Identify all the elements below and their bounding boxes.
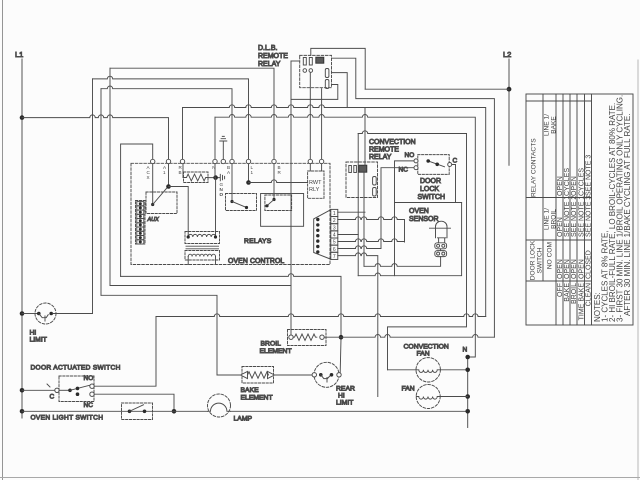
wire hi-limit vertical x=92.5: [92, 79, 94, 314]
wire hi-limit riser to L1 terminal: y=78.9 run: [93, 76, 249, 159]
relay K1 D.L.B. remote relay box: [300, 55, 332, 87]
svg-text:ELEMENT: ELEMENT: [241, 395, 273, 402]
svg-text:5: 5: [333, 240, 336, 246]
svg-text:6: 6: [333, 247, 336, 253]
wire fan to N rail: [440, 396, 467, 398]
terminal T1: [151, 159, 155, 163]
transformer TR primary coil: [188, 234, 216, 237]
relay K4 pivot dot: [272, 198, 275, 201]
svg-text:L1: L1: [15, 50, 23, 59]
svg-text:LIMIT: LIMIT: [336, 400, 353, 407]
svg-text:AUX: AUX: [147, 217, 160, 223]
wire conv fan run: [388, 369, 417, 371]
svg-text:RLY: RLY: [309, 187, 320, 193]
resistor RB zigzag: [183, 164, 208, 181]
hi limit circle: [35, 303, 56, 324]
wire L1 rail to hi limit: [22, 313, 37, 315]
label under T3: [179, 165, 183, 175]
wire K1 coil-top to right bus x=494.4: [332, 58, 495, 337]
relay K3 pivot dot: [230, 200, 233, 203]
wire conv fan to N rail: [440, 369, 467, 371]
door actuated pivot wire: [59, 389, 69, 391]
wire bake feed corner to element: [217, 374, 241, 376]
svg-text:CONVECTION: CONVECTION: [404, 344, 449, 351]
svg-text:HI: HI: [30, 330, 37, 337]
wire conv fan feed from y=133.5 bus: [388, 134, 467, 370]
svg-text:CONVECTION: CONVECTION: [369, 139, 416, 146]
svg-text:DOOR: DOOR: [420, 178, 441, 185]
connector J2 pin dots: [316, 218, 319, 254]
svg-text:C: C: [453, 158, 458, 165]
rear hi limit circle: [314, 362, 339, 387]
relay K2 contact a: [373, 177, 377, 186]
svg-text:LAMP: LAMP: [234, 416, 253, 423]
wire broil feed vertical x=110: [109, 68, 111, 285]
svg-text:O: O: [220, 192, 224, 197]
junction T7: [246, 180, 251, 185]
svg-text:NC: NC: [399, 167, 409, 174]
door lock blade: [428, 161, 444, 167]
svg-text:NO: NO: [405, 152, 415, 159]
wire K1 top feed to L2: [311, 48, 365, 89]
door actuated NO circle: [90, 384, 94, 388]
N rail junction top: [465, 355, 470, 360]
wire K1 pin drop to RWT terminal 9: [309, 73, 311, 160]
relay K1 coil pin 1: [303, 58, 306, 66]
wire RTD link: [440, 249, 442, 251]
svg-text:OPEN: OPEN: [571, 259, 578, 279]
bake element zigzag: [248, 372, 269, 378]
svg-text:X: X: [147, 175, 150, 180]
broil element terminals: [289, 335, 293, 339]
label under T7: [251, 165, 254, 175]
door lock switch solid box left/bottom: [395, 202, 462, 204]
N rail junction conv fan: [465, 368, 470, 373]
door actuated blade: [70, 385, 90, 390]
wire L1 left rail: [21, 59, 23, 418]
svg-text:A: A: [227, 170, 231, 175]
label under T1: [147, 165, 151, 180]
junction on L1 rail at door actuated switch: [20, 388, 25, 393]
relay K2 convection remote relay box: [346, 162, 378, 198]
wire x=365 drop from mid rail through K2 coil to sensor run: [364, 108, 365, 267]
svg-text:SWITCH: SWITCH: [418, 194, 446, 201]
connector J1 10-pin outer: [136, 201, 146, 245]
terminal T5 GND: [221, 159, 225, 163]
wire K1 left pin: [291, 60, 300, 62]
label NO beside K3: [220, 187, 224, 197]
relay K4 contact dot: [265, 204, 268, 207]
door lock C contact circle: [448, 163, 452, 167]
svg-text:LOCK: LOCK: [420, 186, 439, 193]
scan edge artifact right: [637, 60, 639, 480]
connector J1 cells: [137, 202, 144, 244]
transformer TR secondary coil box: [185, 251, 220, 261]
wire hi limit to riser: [53, 313, 93, 315]
convection fan circle: [416, 358, 440, 382]
svg-text:CYCLES: CYCLES: [578, 168, 585, 196]
svg-text:BAKE: BAKE: [550, 116, 557, 134]
svg-text:OVEN LIGHT SWITCH: OVEN LIGHT SWITCH: [31, 415, 104, 422]
door actuated lower dot: [76, 392, 80, 396]
wire RTD run y=266.3 with hops: [364, 257, 441, 267]
table outer border: [526, 94, 633, 325]
svg-text:NO: NO: [84, 375, 94, 382]
relay K3 box: [226, 194, 257, 211]
svg-text:1: 1: [333, 211, 336, 217]
transformer TR core: [186, 246, 219, 249]
wire J2 cell1 to x=365: [338, 211, 365, 213]
terminal T4: [213, 159, 217, 163]
hi limit contact dots: [37, 312, 41, 316]
relay K2 coil body: [359, 165, 367, 172]
wire secondary drops: [188, 257, 215, 265]
wire broil right to junction and on to x=494.4 with hops: [324, 335, 494, 338]
relay K3 blade: [232, 202, 247, 208]
svg-text:B: B: [179, 170, 182, 175]
svg-text:OPEN: OPEN: [557, 176, 564, 196]
svg-text:RWT: RWT: [309, 180, 322, 186]
wire L2 horizontal to D.L.B. relay: [365, 88, 509, 90]
relay K1 pin circle 2: [309, 69, 313, 73]
door actuated dashed box: [59, 376, 94, 402]
wire K1 pin drop to RWT terminal 10: [321, 89, 323, 160]
label under T8: [278, 165, 282, 175]
svg-text:1: 1: [251, 170, 254, 175]
svg-text:OPEN: OPEN: [557, 259, 564, 279]
wire mid rail y=117.2 terminal 4 to right bus x=475.3 with hops: [215, 115, 475, 358]
svg-text:FAN: FAN: [417, 351, 430, 358]
svg-text:LIMIT: LIMIT: [30, 337, 47, 344]
junction on L1 rail at top bus: [20, 115, 25, 120]
wire J2 cell6 with hops rising to door lock NC: [338, 168, 414, 249]
wire K1 contact-b loop to broil riser: [291, 85, 338, 100]
bake element left arrow: [241, 371, 248, 378]
bake element right arrow: [268, 371, 275, 378]
svg-text:4: 4: [333, 233, 336, 239]
door lock blade dots: [426, 159, 430, 163]
door lock NO contact circle: [414, 159, 418, 163]
door actuated NC circle: [90, 392, 94, 396]
junction on L1 rail at hi-limit: [20, 311, 25, 316]
wire T4 drop through junction to transformer primary right: [214, 164, 217, 237]
svg-text:7: 7: [333, 254, 336, 260]
svg-text:RELAY: RELAY: [369, 154, 392, 161]
wire T8 drop into K4: [273, 164, 275, 200]
wire bake element to rear hi limit: [275, 374, 313, 376]
hi limit blade: [39, 314, 48, 322]
label under T2: [163, 165, 167, 175]
wire sensor-box left edge x=358.2: [357, 134, 359, 276]
wire terminal 4 riser: [214, 117, 216, 159]
svg-text:NC: NC: [84, 402, 94, 409]
rear hi limit blade: [321, 375, 330, 382]
rear hi limit dots: [319, 373, 323, 377]
svg-text:OVEN CONTROL: OVEN CONTROL: [228, 258, 284, 265]
svg-text:OPEN: OPEN: [578, 259, 585, 279]
relay K1 contact a: [325, 69, 329, 78]
svg-text:ELEMENT: ELEMENT: [260, 348, 292, 355]
wire NO to riser x=156 joining y=316.5 run: [94, 317, 156, 387]
wire top L1 bus to terminal 2 with hops: [22, 115, 169, 159]
wire J2 cell5 with hops to x=404.5: [338, 239, 405, 242]
wire y=133.5 bus: [358, 131, 466, 134]
relay K2 pin rect 2: [354, 166, 357, 173]
table column lines: [526, 101, 592, 281]
relay K4 blade: [266, 200, 274, 207]
svg-text:C: C: [50, 394, 55, 401]
connector J2 trapezoid: [314, 210, 331, 260]
wire AUX junction to transformer primary left: [169, 187, 189, 237]
broil element zigzag: [293, 334, 317, 340]
wire T2 drop to AUX junction: [168, 164, 170, 187]
wire bake feed: y=88.7 run to terminal BA: [101, 86, 232, 159]
svg-text:FAN: FAN: [402, 386, 415, 393]
earth ground above T5: [220, 136, 227, 159]
wire T9 stub: [309, 164, 311, 171]
connector J2 cell numbers: [333, 211, 336, 260]
wire J2 cell2 with hops to corner x=404.5: [338, 217, 405, 242]
terminal T7 L1: [246, 159, 250, 163]
oven control dashed enclosure: [131, 163, 330, 264]
wire RB to junction and chassis ground: [208, 174, 225, 180]
scan edge artifact bottom: [0, 477, 640, 479]
wire sensor bottom run y=275.7 with hops: [358, 203, 461, 276]
svg-text:SWITCH: SWITCH: [537, 247, 544, 273]
svg-text:AFTER 30 MIN. LINE 1/BAKE CYCL: AFTER 30 MIN. LINE 1/BAKE CYCLING AT FUL…: [623, 114, 632, 316]
door lock contact dashed box: [418, 155, 449, 175]
relay K1 contact b: [325, 80, 329, 89]
resistor RB inside control: [184, 172, 209, 183]
relay AUX pivot dot: [151, 203, 154, 206]
junction on L1 rail at oven light: [20, 409, 25, 414]
wire J2 cell4 to sensor-box edge: [338, 234, 358, 236]
svg-text:CLEAN: CLEAN: [585, 283, 592, 306]
oven sensor neck: [438, 238, 446, 243]
door lock switch C stub: [452, 165, 456, 203]
svg-text:1: 1: [163, 170, 166, 175]
wire broil riser x=291 from K1 to broil element: [290, 61, 292, 335]
svg-text:SEE NOTE 1: SEE NOTE 1: [564, 196, 571, 237]
svg-text:R: R: [278, 170, 282, 175]
wire junction T7 to RWT box with hop: [249, 180, 308, 183]
svg-text:D.L.B.: D.L.B.: [258, 45, 278, 52]
oven sensor body: [436, 228, 448, 238]
relay K4 inner dashed box: [265, 195, 292, 211]
wire T7 drop to junction: [248, 164, 250, 183]
transformer TR secondary coil: [188, 254, 215, 256]
relay K3 contact dot: [245, 206, 248, 209]
terminal T2: [166, 159, 170, 163]
wire J2 cell7 with hops to fan riser: [338, 253, 378, 397]
transformer TR primary terminals: [187, 235, 190, 238]
oven light switch dashed box: [122, 403, 153, 420]
label under T6: [227, 165, 231, 175]
svg-text:REMOTE: REMOTE: [369, 147, 399, 154]
svg-text:CYCLES: CYCLES: [564, 168, 571, 196]
svg-text:BAKE: BAKE: [564, 283, 571, 302]
label RWT RLY: [309, 180, 322, 193]
svg-text:REMOTE: REMOTE: [258, 53, 288, 60]
junction RB output: [213, 175, 218, 180]
svg-text:NO COM: NO COM: [547, 242, 554, 269]
relay K1 coil body: [316, 57, 324, 63]
wire terminal 1 loop around control box to y=276 run: [121, 144, 153, 276]
wire T1 drop into AUX: [152, 164, 154, 205]
relay AUX blade: [153, 188, 167, 205]
fan coil: [416, 397, 440, 400]
svg-text:3: 3: [333, 225, 336, 231]
wire rail to door actuated switch C: [22, 384, 55, 390]
sensor RTD 1: [435, 243, 447, 249]
wire lamp to N rail: [231, 410, 468, 412]
wire rear hi limit riser to broil junction: [339, 339, 342, 372]
wire broil feed: y=68.2 run to terminal BR: [110, 68, 274, 159]
door actuated switch C circle: [55, 388, 59, 392]
junction NC drop: [172, 409, 177, 414]
N rail junction fan: [465, 394, 470, 399]
terminal T3: [180, 159, 184, 163]
svg-text:CLOSED: CLOSED: [585, 250, 592, 279]
bake element dashed box: [242, 367, 274, 384]
oven light switch blade: [130, 405, 144, 412]
broil element dashed box: [288, 330, 327, 346]
relay K1 coil pin 2: [309, 58, 312, 66]
svg-text:OPEN: OPEN: [564, 259, 571, 279]
svg-text:HI: HI: [338, 393, 345, 400]
svg-text:RELAY CONTACTS: RELAY CONTACTS: [531, 138, 538, 197]
wire terminal 3 riser: [182, 108, 184, 160]
svg-text:BROIL: BROIL: [571, 283, 578, 304]
oven sensor flange: [430, 227, 451, 229]
N rail: [467, 357, 469, 428]
wire oven light run left: [22, 410, 208, 412]
wire y=295.3 run bake feed: [101, 295, 217, 375]
wire K1 contact-a to mid rail: [332, 73, 348, 108]
door actuated blade dot: [76, 387, 80, 391]
lamp dashed circle: [208, 394, 231, 417]
relay K2 contact b: [373, 188, 377, 197]
svg-text:OPEN: OPEN: [571, 176, 578, 196]
svg-text:2: 2: [333, 218, 336, 224]
wire long run y=316.5 with hops: [156, 314, 486, 317]
label GND: [220, 182, 224, 197]
relay K1 pin circle 1: [303, 69, 307, 73]
wire y=276.4 run to broil junction riser: [121, 274, 341, 338]
svg-text:RELAY: RELAY: [258, 61, 281, 68]
svg-text:N: N: [463, 347, 468, 354]
wire L2 drop: [508, 59, 510, 165]
scan edge artifact left: [2, 0, 4, 480]
wire bake feed vertical x=101: [100, 89, 102, 296]
svg-text:SEE NOTE 1: SEE NOTE 1: [578, 196, 585, 237]
door actuated pivot dot: [68, 389, 72, 393]
terminal T8 BR: [272, 159, 276, 163]
terminal T6 BA: [230, 159, 234, 163]
label under T4: [212, 165, 215, 170]
svg-text:SEE NOTE 3: SEE NOTE 3: [585, 155, 592, 196]
svg-text:DOOR LOCK: DOOR LOCK: [530, 240, 537, 280]
svg-text:L2: L2: [503, 50, 511, 59]
svg-text:TIME BAKE: TIME BAKE: [578, 283, 585, 321]
relay K2 pin rect 1: [349, 166, 352, 173]
wire T10 stub: [321, 164, 323, 171]
relay K4 outer box: [261, 194, 304, 227]
svg-text:SEE NOTE 2: SEE NOTE 2: [571, 196, 578, 237]
sensor RTD 2: [435, 251, 447, 257]
svg-text:BROIL: BROIL: [261, 341, 282, 348]
svg-text:OFF: OFF: [557, 283, 564, 297]
wire NC to lamp line: [94, 394, 174, 411]
connector J1 pins: [139, 202, 142, 243]
transformer TR primary coil box: [185, 232, 220, 244]
svg-text:RELAYS: RELAYS: [244, 238, 272, 245]
rear hi limit terminals: [312, 373, 316, 377]
terminal T9: [308, 159, 312, 163]
wire mid rail y=107.5 terminal 3 to right bus x=485.7 with hops: [183, 105, 486, 317]
junction AUX / transformer feed: [166, 184, 171, 189]
connector J2 7-cell column: [331, 209, 338, 259]
N rail junction lamp: [465, 409, 470, 414]
relay AUX box: [146, 192, 177, 214]
svg-text:SENSOR: SENSOR: [409, 216, 439, 223]
wire y=285.5 run broil-left feed: [110, 285, 291, 287]
door lock NC contact circle: [414, 166, 418, 170]
relay RWT RLY box: [308, 171, 324, 198]
convection fan coil: [416, 370, 440, 373]
svg-text:OVEN: OVEN: [409, 208, 429, 215]
oven sensor dome: [436, 221, 448, 228]
svg-text:REAR: REAR: [336, 386, 355, 393]
terminal T10: [319, 159, 323, 163]
wire T6 drop into K3: [231, 164, 233, 202]
fan circle: [416, 385, 440, 409]
svg-text:OPEN: OPEN: [557, 217, 564, 237]
table: mode chart (rotated 90): [526, 94, 633, 325]
wire door lock NO drop x=391.5: [395, 161, 415, 276]
oven light switch dots: [128, 410, 132, 414]
lamp loop: [208, 403, 231, 411]
svg-text:DOOR ACTUATED SWITCH: DOOR ACTUATED SWITCH: [31, 365, 121, 372]
svg-text:BAKE: BAKE: [241, 387, 260, 394]
junction L2: [507, 87, 512, 92]
table row lines: [543, 94, 592, 325]
broil junction dot: [339, 335, 344, 340]
svg-text:SEE NOTE 3: SEE NOTE 3: [585, 196, 592, 237]
